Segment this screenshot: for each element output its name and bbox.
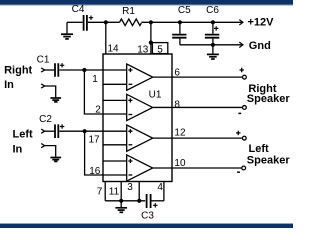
capacitor C5 bottom lead: [179, 39, 181, 45]
capacitor C1 plates: [55, 63, 58, 77]
wire to ground (left in): [45, 146, 56, 157]
capacitor C2 plates: [55, 124, 58, 138]
op-amp C: [127, 125, 153, 151]
pin 5 box: [152, 43, 167, 54]
terminal pin 6: [243, 75, 247, 79]
plus mark right speaker: [240, 68, 244, 72]
node pin11 / gnd: [119, 199, 123, 203]
node C2 / pin17: [83, 129, 87, 133]
op-amp C plus: [128, 129, 132, 133]
svg-text:7: 7: [97, 186, 103, 197]
svg-text:Right: Right: [4, 64, 32, 76]
input connector Right In: [41, 68, 44, 72]
svg-text:11: 11: [109, 187, 120, 198]
wire C2 to pin 17: [59, 130, 127, 132]
op-amp A minus: [129, 83, 133, 85]
resistor R1 zigzag: [120, 19, 142, 26]
wire pin 14 drop: [105, 22, 107, 54]
node R1/pin13: [149, 20, 153, 24]
wire top rail left segment: [67, 21, 83, 23]
op-amp B: [127, 94, 153, 120]
wire C3 to pin 4: [152, 200, 164, 202]
wire C4 left lead down: [66, 22, 68, 33]
wire bottom rail: [105, 200, 145, 202]
svg-text:Speaker: Speaker: [247, 155, 291, 167]
capacitor C4 plus sign: [89, 16, 93, 20]
svg-text:16: 16: [89, 166, 101, 177]
IC U1 body: [103, 54, 172, 182]
wire Left In to C2: [45, 130, 55, 132]
svg-text:+12V: +12V: [248, 17, 275, 29]
plus mark left speaker: [236, 131, 240, 135]
wire C1 to pin 1: [59, 69, 127, 71]
svg-text:Speaker: Speaker: [247, 93, 291, 105]
svg-text:Left: Left: [13, 129, 34, 141]
wire pin 4 drop: [163, 182, 165, 201]
svg-text:R1: R1: [122, 6, 135, 17]
bottom navy banner: [0, 224, 293, 228]
svg-text:12: 12: [174, 128, 186, 139]
svg-text:10: 10: [174, 158, 186, 169]
wire pin 7 drop: [104, 182, 106, 201]
node pin13/box5: [149, 41, 153, 45]
svg-text:C4: C4: [72, 4, 85, 15]
svg-text:1: 1: [92, 74, 98, 85]
arrow head Gnd: [239, 42, 243, 47]
svg-text:In: In: [4, 79, 14, 91]
top navy banner: [0, 0, 293, 5]
svg-text:C5: C5: [178, 5, 191, 16]
capacitor C4 plates: [84, 15, 87, 31]
capacitor C6 bottom lead: [212, 39, 214, 45]
capacitor C3 plates: [147, 194, 151, 208]
wire pin 3 drop: [138, 182, 140, 201]
svg-text:Gnd: Gnd: [249, 40, 271, 52]
wire Right In to C1: [45, 69, 55, 71]
wire rail C4 to R1: [88, 21, 120, 23]
wire pin1 node to pin2: [84, 70, 126, 114]
ground (bottom) stub: [120, 201, 122, 208]
svg-text:2: 2: [95, 105, 101, 116]
capacitor C1 plus sign: [60, 63, 64, 67]
op-amp B minus: [129, 114, 133, 116]
wire pin 6 output: [153, 76, 243, 78]
svg-text:6: 6: [174, 67, 180, 78]
internal stub amp B plus: [103, 99, 127, 101]
ground (left in): [50, 158, 61, 162]
node C5 top: [178, 20, 182, 24]
ground (C4): [61, 34, 73, 39]
svg-text:14: 14: [108, 44, 120, 55]
arrow head +12V: [239, 20, 243, 25]
node C4/R1/pin14: [104, 20, 108, 24]
svg-text:8: 8: [174, 100, 180, 111]
svg-text:4: 4: [157, 182, 163, 193]
wire pin 13 drop: [150, 22, 152, 54]
input connector Left In: [41, 129, 44, 133]
svg-text:5: 5: [157, 44, 163, 55]
minus mark left speaker: [237, 171, 240, 173]
terminal pin 12: [242, 136, 246, 140]
capacitor C5 plates: [172, 35, 186, 38]
svg-text:C2: C2: [39, 114, 52, 125]
ground (C6) stub: [212, 45, 214, 54]
wire rail R1 to +12V arrow: [141, 21, 242, 23]
ground (bottom): [115, 208, 127, 213]
wire pin17 node to pin16: [85, 131, 127, 175]
op-amp A (top): [127, 64, 153, 90]
wire 5-box tap: [151, 42, 153, 44]
ground (C6): [207, 54, 219, 59]
node C1 / pin1: [82, 68, 86, 72]
svg-text:Left: Left: [249, 143, 270, 155]
wire pin 12 output: [153, 137, 243, 139]
svg-text:C6: C6: [206, 5, 219, 16]
wire pin 10 output: [153, 167, 242, 169]
internal stub amp A minus: [103, 83, 127, 85]
terminal pin 8: [243, 106, 247, 110]
op-amp C minus: [129, 144, 133, 146]
input ground connector (left): [41, 144, 44, 148]
op-amp D minus: [129, 174, 133, 176]
svg-text:C1: C1: [37, 55, 50, 66]
capacitor C6 plates: [205, 35, 219, 38]
wire pin 11 drop: [120, 182, 122, 201]
svg-text:13: 13: [137, 44, 149, 55]
minus mark right speaker: [238, 112, 241, 114]
svg-text:3: 3: [127, 182, 133, 193]
op-amp A plus: [128, 68, 132, 72]
node C6 top: [211, 20, 215, 24]
node C6 bottom / gnd: [211, 43, 215, 47]
node pin3 / C3: [137, 199, 141, 203]
capacitor C6 top lead: [212, 22, 214, 34]
svg-text:17: 17: [88, 135, 100, 146]
input ground connector (right): [41, 84, 44, 88]
capacitor C5 top lead: [179, 22, 181, 34]
op-amp B plus: [128, 98, 132, 102]
capacitor C6 plus sign: [214, 26, 218, 30]
svg-text:U1: U1: [149, 90, 162, 101]
internal stub amp D plus: [103, 160, 127, 162]
wire pin 8 output: [153, 106, 243, 108]
op-amp D plus: [128, 159, 132, 163]
svg-text:C3: C3: [141, 211, 154, 222]
terminal pin 10: [242, 166, 246, 170]
wire gnd rail: [180, 44, 242, 46]
op-amp D (bottom): [127, 155, 153, 181]
wire to ground (right in): [45, 86, 56, 97]
capacitor C3 plus sign: [153, 203, 157, 207]
ground (right in): [50, 98, 61, 102]
capacitor C2 plus sign: [60, 124, 64, 128]
internal stub amp C minus: [103, 144, 127, 146]
svg-text:In: In: [13, 144, 23, 156]
